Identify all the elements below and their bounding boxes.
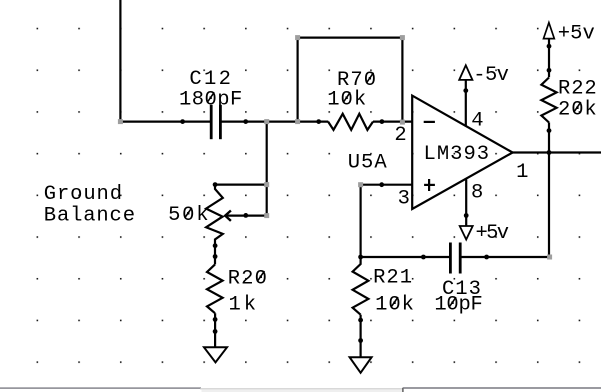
- op-amp U5A LM393: [412, 96, 512, 209]
- junction on wiper wire: [243, 213, 248, 218]
- node: R70 loop bottom-left: [295, 119, 300, 124]
- junction R22 bottom lead: [547, 128, 552, 133]
- +5v arrow (pin 8): [460, 226, 473, 240]
- junction on main wire at C12 left: [180, 119, 185, 124]
- op-amp plus sign: [424, 179, 435, 191]
- wire: pot top to vertical: [215, 184, 267, 186]
- wire: junction down to potentiometer: [266, 122, 268, 216]
- wire: pot wiper: [225, 215, 266, 217]
- node: corner of input wire: [118, 119, 123, 124]
- svg-text:10pF: 10pF: [434, 294, 482, 317]
- +5v arrow (R22): [544, 23, 555, 39]
- capacitor C13: [450, 243, 460, 274]
- potentiometer 50k body: [206, 185, 223, 265]
- junction on C13 wire left: [421, 255, 426, 260]
- junction pot bottom lead: [213, 243, 218, 248]
- resistor R22: [541, 78, 556, 123]
- wire: C13 right segment: [460, 256, 549, 258]
- node: pin 3 wire end: [358, 182, 363, 187]
- wire: vertical drop top-left: [119, 0, 121, 122]
- junction at pot top: [213, 182, 218, 187]
- wire: R22 branch down to C13: [548, 123, 550, 258]
- svg-text:C12: C12: [189, 68, 231, 91]
- svg-text:50k: 50k: [168, 204, 208, 227]
- svg-text:2: 2: [394, 124, 406, 147]
- svg-text:Ground: Ground: [44, 183, 122, 206]
- svg-text:180pF: 180pF: [179, 89, 242, 112]
- wire: R21 to ground: [360, 315, 362, 358]
- svg-text:LM393: LM393: [424, 143, 490, 166]
- wire: C13 left segment: [361, 256, 451, 258]
- svg-text:U5A: U5A: [348, 151, 388, 174]
- wire: pin 8: [465, 180, 467, 227]
- potentiometer 50k wiper arrow: [225, 211, 231, 221]
- node: pot-top wire end: [264, 182, 269, 187]
- resistor R20: [207, 264, 223, 313]
- junction above left ground: [213, 329, 218, 334]
- svg-text:1: 1: [516, 161, 528, 184]
- wire: R20 to ground: [214, 313, 216, 347]
- resistor R70: [328, 114, 373, 130]
- junction on main wire at R70 left: [316, 119, 321, 124]
- svg-text:Balance: Balance: [44, 205, 135, 228]
- junction on pin 4 wire: [463, 88, 468, 93]
- svg-text:3: 3: [398, 187, 410, 210]
- wire: C12 right plate to R70 zigzag: [220, 120, 328, 122]
- junction node at op-amp output: [547, 150, 552, 155]
- junction R21 bottom lead: [358, 318, 363, 323]
- wire: R70 zigzag to op-amp pin 2: [373, 120, 412, 122]
- junction on C13 wire right: [484, 255, 489, 260]
- resistor R21: [353, 257, 369, 315]
- node: R70 loop top-left: [295, 35, 300, 40]
- junction R20 bottom lead: [213, 317, 218, 322]
- -5v arrow (pin 4): [459, 65, 472, 80]
- svg-text:20k: 20k: [558, 98, 597, 121]
- svg-text:10k: 10k: [327, 89, 366, 112]
- junction node pin3/R21/C13: [358, 255, 363, 260]
- svg-text:-5v: -5v: [473, 64, 509, 87]
- ground (right): [350, 357, 372, 373]
- wire: pin3 node down to C13/R21: [360, 185, 362, 257]
- wire: main horizontal to C12 left plate: [119, 120, 211, 122]
- junction R22 top lead upper: [547, 44, 552, 49]
- junction on pin 8 wire: [464, 213, 469, 218]
- node: wiper wire end: [264, 213, 269, 218]
- svg-text:8: 8: [471, 181, 483, 204]
- junction on main wire at R70 right / pin 2: [380, 119, 385, 124]
- junction R20 top lead: [213, 254, 218, 259]
- junction on main wire at C12 right: [243, 119, 248, 124]
- junction R22 top lead lower: [547, 68, 552, 73]
- svg-text:+5v: +5v: [558, 22, 595, 45]
- slashed zeros: [185, 73, 581, 308]
- op-amp minus sign: [424, 121, 435, 123]
- junction on pin 3 wire: [379, 182, 384, 187]
- capacitor C12: [211, 105, 220, 139]
- junction above right ground: [358, 338, 363, 343]
- node: R70 loop top-right: [400, 35, 405, 40]
- wire: output pin 1: [512, 151, 601, 153]
- svg-text:R22: R22: [558, 78, 597, 101]
- status bar bottom: [0, 387, 601, 392]
- wire: pin 3 input: [361, 184, 412, 186]
- svg-text:4: 4: [471, 109, 483, 132]
- svg-text:R20: R20: [228, 267, 267, 290]
- node: C13 wire end at R22 branch: [547, 255, 552, 260]
- wire: R70 feedback loop: [298, 38, 403, 122]
- wire: pin 4: [465, 80, 467, 127]
- wire: R22 top lead: [548, 39, 550, 78]
- node: main wire to pot branch: [264, 119, 269, 124]
- node: R70 loop bottom-right / pin 2: [400, 120, 405, 125]
- svg-text:R21: R21: [373, 267, 412, 290]
- ground (left): [204, 347, 227, 362]
- svg-text:10k: 10k: [375, 293, 414, 316]
- svg-text:+5v: +5v: [476, 222, 510, 245]
